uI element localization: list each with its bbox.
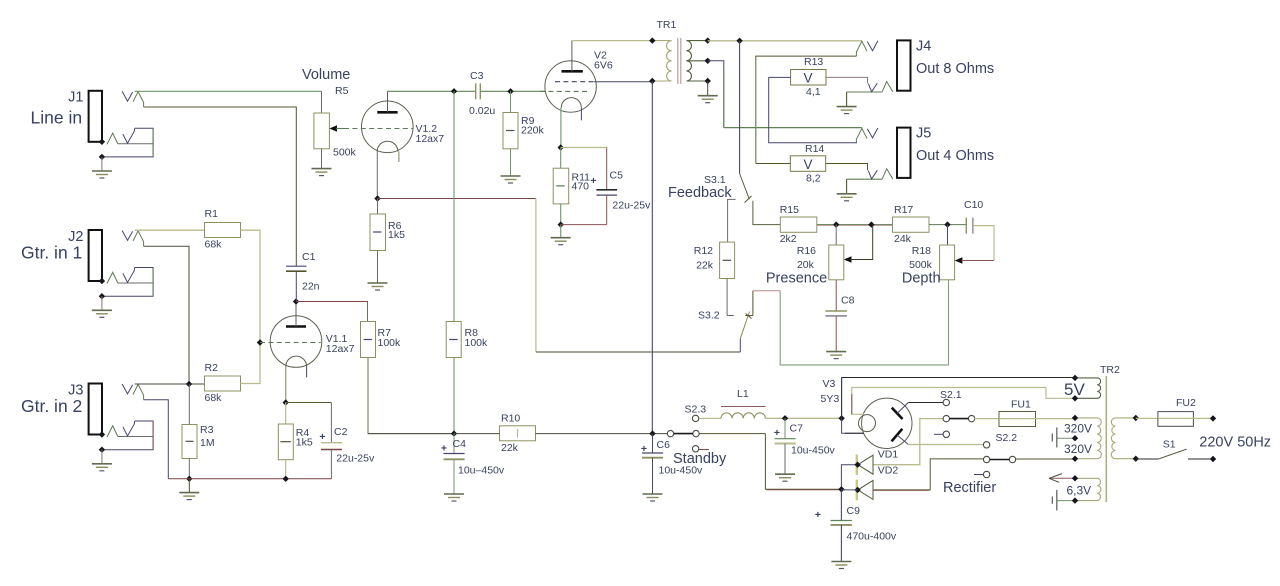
svg-text:12ax7: 12ax7 [416, 133, 445, 145]
svg-text:L1: L1 [737, 388, 749, 400]
R16 wiper arrow [844, 256, 852, 263]
wire C8 to ground [835, 316, 837, 352]
svg-text:6,3V: 6,3V [1067, 484, 1092, 498]
svg-text:0.02u: 0.02u [469, 105, 495, 117]
svg-text:22k: 22k [501, 442, 519, 454]
resistor R11 [553, 168, 569, 204]
wire VD2 junction through to S2.2 [841, 489, 857, 491]
node R18 top [944, 221, 950, 227]
svg-text:C9: C9 [847, 505, 861, 517]
wire R6 to ground [377, 251, 379, 284]
TR1 secondary winding [686, 41, 707, 81]
TR2 6.3V winding [1075, 478, 1101, 500]
voltmeter R14 [790, 156, 825, 172]
wire TR1 primary bottom B+ vertical [651, 81, 653, 434]
wire ground stem R3 [188, 479, 190, 493]
capacitor C2 [330, 403, 332, 443]
capacitor C8 [825, 310, 847, 312]
wire J3 sleeve to ground [102, 421, 153, 450]
TR2 right terminal nodes [1133, 415, 1139, 421]
svg-text:R17: R17 [894, 204, 913, 216]
svg-text:R2: R2 [205, 362, 219, 374]
wire R4 bottom lead [285, 460, 287, 479]
svg-text:100k: 100k [378, 337, 402, 349]
node feedback tap [736, 38, 742, 44]
resistor R2 [205, 376, 241, 391]
wire primary top to FU2 [1136, 417, 1158, 419]
wire R1 to grid bus [241, 230, 261, 342]
connector J5 body [897, 128, 911, 178]
rectifier tube V3 envelope [862, 398, 912, 448]
V2 anode [562, 70, 583, 73]
wire ground bus [168, 478, 331, 480]
wire R15 to R17 [817, 224, 893, 226]
node V1.2 cathode [374, 195, 380, 201]
node C6 top [649, 430, 655, 436]
svg-text:Depth: Depth [902, 271, 941, 287]
TR1 primary winding [652, 41, 671, 81]
V2 control grid [540, 90, 588, 92]
R5 wiper arrow [329, 125, 337, 132]
svg-text:FU2: FU2 [1176, 397, 1196, 409]
6.3V tap chassis [1057, 500, 1075, 502]
capacitor C9 [840, 490, 842, 521]
capacitor C5 wiring [561, 147, 607, 149]
svg-text:Volume: Volume [302, 67, 350, 83]
ground J3 [92, 464, 112, 471]
V3 bottom anode [892, 429, 903, 442]
V2 cathode [561, 98, 581, 108]
svg-text:J4: J4 [916, 39, 931, 55]
node J1 sleeve [99, 139, 105, 145]
svg-text:C2: C2 [334, 426, 348, 438]
ground J4 [837, 107, 857, 114]
svg-text:S2.3: S2.3 [685, 404, 707, 416]
capacitor C10 [965, 218, 967, 234]
J4 tip contact [867, 41, 878, 51]
resistor R9 [510, 91, 512, 112]
svg-text:R16: R16 [797, 245, 816, 257]
wire rail R8 to R10 [454, 433, 500, 435]
node R16 wiper tap [868, 221, 874, 227]
node R9 top [507, 88, 513, 94]
svg-text:Rectifier: Rectifier [943, 480, 996, 496]
potentiometer R18 [940, 245, 955, 280]
svg-text:Standby: Standby [673, 451, 727, 467]
J1 sleeve contact [107, 133, 118, 144]
wire R17 to C10 node [929, 224, 966, 226]
svg-text:S1: S1 [1163, 439, 1176, 451]
wire R5 bottom to ground [321, 149, 323, 169]
wire TR1 secondary bottom to ground [707, 81, 709, 96]
S3.1 contact stub to R12 [728, 199, 736, 242]
svg-text:V: V [803, 157, 812, 172]
wire J1 sleeve to ground [102, 128, 153, 157]
resistor R7 [361, 322, 376, 358]
ground R5 [312, 169, 332, 176]
wire R8 bottom to rail [453, 358, 455, 434]
svg-text:22u-25v: 22u-25v [612, 200, 651, 212]
svg-text:Line in: Line in [31, 108, 83, 128]
wire C10 to R18 wiper [973, 226, 994, 261]
V3 top anode [892, 408, 903, 419]
potentiometer R16 [829, 245, 844, 280]
TR2 primary winding [1111, 418, 1136, 459]
svg-text:C10: C10 [964, 199, 983, 211]
wire V3 cathode bottom loop [842, 378, 1075, 419]
resistor R17 [893, 217, 930, 232]
svg-text:J5: J5 [916, 126, 931, 142]
wire J2 sleeve to ground [102, 268, 153, 297]
wire J4 shunt to R14 [756, 56, 857, 163]
switch S2.3 standby pole [667, 430, 673, 436]
svg-text:500k: 500k [909, 259, 933, 271]
svg-text:R5: R5 [335, 85, 349, 97]
TR2 core [1105, 376, 1107, 502]
switch S3.1 common wire [739, 41, 741, 174]
V2 screen grid [555, 81, 594, 83]
svg-text:S3.2: S3.2 [698, 310, 720, 322]
svg-text:22n: 22n [302, 281, 320, 293]
svg-text:R3: R3 [200, 424, 214, 436]
resistor R6 [377, 199, 379, 215]
wire J1 ground stem [101, 157, 103, 171]
svg-text:5Y3: 5Y3 [821, 393, 840, 405]
wire J1 shunt to C1 [144, 107, 297, 266]
wire J3 tip to node A [135, 383, 205, 385]
wire R11 top lead [560, 148, 562, 169]
TR2 left terminal nodes [1072, 375, 1078, 381]
wire R13 right to J4 sleeve [826, 77, 868, 83]
svg-text:68k: 68k [205, 392, 223, 404]
V1.1 anode [286, 325, 306, 328]
wire J3 ground stem [101, 450, 103, 464]
ground R9 [501, 176, 521, 183]
wire R11 ground stem [560, 225, 562, 238]
node R4 ground bus [283, 476, 289, 482]
ground C6 [643, 494, 663, 501]
HV center tap [1057, 437, 1075, 439]
wire V1.2 anode to C3 [388, 90, 476, 92]
wire V2 anode to TR1 [572, 40, 652, 42]
wire J1 tip to volume [135, 90, 322, 92]
svg-text:22u-25v: 22u-25v [336, 453, 375, 465]
wire V1.2 cathode to S3.2 [378, 198, 536, 200]
ground R11 [551, 238, 571, 245]
J3 tip contact [122, 384, 133, 394]
wire R8 top vertical [453, 91, 455, 321]
6.3V heater arrow [1049, 477, 1075, 479]
svg-text:+: + [815, 509, 821, 521]
wire top anode to S2.1 [908, 402, 943, 404]
wire R18 bottom to depth loop [780, 280, 948, 365]
svg-text:VD2: VD2 [878, 465, 899, 477]
svg-text:2k2: 2k2 [780, 233, 797, 245]
svg-text:470u-400v: 470u-400v [847, 531, 897, 543]
svg-text:C7: C7 [790, 423, 804, 435]
wire R10 to C6 node [536, 433, 671, 435]
svg-text:R14: R14 [805, 143, 824, 155]
svg-text:68k: 68k [205, 239, 223, 251]
svg-text:Gtr. in 1: Gtr. in 1 [21, 243, 82, 263]
wire R14 right to J5 sleeve [826, 164, 868, 171]
connector J4 body [897, 40, 911, 90]
svg-text:FU1: FU1 [1011, 399, 1031, 411]
wire R11 bottom lead [560, 204, 562, 225]
node R11 bottom [558, 221, 564, 227]
V1.2 cathode [377, 141, 398, 151]
svg-text:+: + [441, 443, 447, 455]
svg-text:22k: 22k [696, 260, 714, 272]
wire R2 to grid bus [241, 343, 261, 384]
node A J3 tip / R2 / R3 [186, 381, 192, 387]
node C3 left / R8 [451, 88, 457, 94]
svg-text:100k: 100k [465, 337, 489, 349]
capacitor C5 [596, 189, 617, 191]
node C7 top [782, 415, 788, 421]
node R3 ground [186, 476, 192, 482]
resistor R15 [780, 217, 817, 232]
svg-text:Out 4 Ohms: Out 4 Ohms [916, 148, 994, 164]
wire cathode to R4/C2 [286, 402, 332, 404]
svg-text:12ax7: 12ax7 [326, 343, 355, 355]
S3.2 upper contact from presence loop [745, 315, 753, 317]
svg-text:R1: R1 [205, 208, 219, 220]
svg-text:Out 8 Ohms: Out 8 Ohms [916, 61, 994, 77]
diode VD2 [856, 480, 858, 501]
wire TR1 secondary top to J4 tip [708, 40, 862, 42]
wire R16 top lead [835, 225, 837, 245]
node J2 ground [99, 293, 105, 299]
V3 filament [859, 415, 876, 432]
svg-text:TR1: TR1 [657, 19, 677, 31]
svg-text:+: + [319, 431, 325, 443]
wire bottom anode to S2.2 [908, 444, 983, 446]
resistor R8 [446, 322, 461, 358]
svg-text:220k: 220k [521, 125, 545, 137]
ground J1 [92, 171, 112, 178]
node J3 sleeve [99, 431, 105, 437]
svg-text:J1: J1 [68, 90, 83, 106]
wire S2.2 to TR2 HV bottom [1016, 458, 1076, 460]
node V1.1 anode / C1 [293, 298, 299, 304]
svg-text:+: + [590, 175, 596, 187]
switch S3.1 blade [740, 174, 750, 200]
wire standby to rectifier output [765, 434, 841, 490]
wire FU2 to mains [1193, 417, 1213, 419]
wire R18 top lead [947, 225, 949, 245]
ground TR1 [698, 96, 718, 103]
wire R16 bottom to C8 [835, 280, 837, 311]
J2 sleeve contact [107, 272, 118, 283]
svg-text:320V: 320V [1064, 442, 1092, 456]
ground C9 [831, 562, 851, 569]
wire R3 top lead [188, 384, 190, 425]
J1 tip contact [122, 91, 133, 101]
TR1 core [677, 38, 679, 84]
svg-text:8,2: 8,2 [806, 173, 821, 185]
svg-text:20k: 20k [797, 259, 815, 271]
wire FU1 to TR2 [1036, 418, 1076, 420]
capacitor C1 [286, 265, 307, 267]
svg-text:+: + [774, 427, 780, 439]
node J2 sleeve [99, 278, 105, 284]
svg-text:R12: R12 [694, 245, 713, 257]
svg-text:VD1: VD1 [878, 449, 899, 461]
svg-text:R10: R10 [501, 413, 520, 425]
svg-text:R18: R18 [912, 245, 931, 257]
wire S2.1 to FU1 [975, 418, 1000, 420]
wire R3 bottom lead [188, 459, 190, 479]
svg-text:500k: 500k [333, 147, 357, 159]
node V2 cathode / R11 top [558, 144, 564, 150]
svg-text:TR2: TR2 [1100, 364, 1120, 376]
svg-text:4,1: 4,1 [806, 86, 821, 98]
svg-text:220V 50Hz: 220V 50Hz [1199, 435, 1271, 451]
node B+ junction [838, 415, 844, 421]
resistor R4 [278, 424, 293, 460]
svg-text:1k5: 1k5 [296, 436, 313, 448]
ground J5 [837, 194, 857, 201]
V1.1 cathode [286, 356, 307, 366]
ground C7 [775, 474, 795, 481]
svg-text:10u-450v: 10u-450v [791, 445, 836, 457]
switch S2.3 upper contact [692, 415, 698, 421]
svg-text:24k: 24k [894, 233, 912, 245]
svg-text:C4: C4 [453, 438, 467, 450]
node J3 ground [99, 447, 105, 453]
wire J4 sleeve ground stem [846, 92, 848, 107]
wire R9 to ground [510, 149, 512, 176]
triode V1.1 envelope [270, 316, 322, 368]
V1.2 grid [344, 128, 413, 130]
J4 sleeve contact [882, 82, 893, 93]
svg-text:R15: R15 [780, 204, 799, 216]
node V1.1 grid [257, 339, 263, 345]
svg-text:S2.1: S2.1 [940, 389, 962, 401]
ground bus area [179, 493, 199, 500]
J3 sleeve contact [107, 426, 118, 437]
svg-text:C8: C8 [841, 295, 855, 307]
voltmeter R13 [791, 70, 826, 86]
resistor R10 [500, 426, 536, 441]
ground C4 [444, 494, 464, 501]
capacitor C3 [475, 83, 477, 99]
resistor R12 [720, 242, 735, 278]
svg-text:R13: R13 [804, 56, 823, 68]
wire S3.1 to R15 [753, 201, 780, 225]
V1.2 anode [377, 111, 397, 114]
ground C8 [826, 352, 846, 359]
fuse FU2 [1158, 412, 1194, 427]
ground J2 [92, 310, 112, 317]
wire R12 bottom to S3.2 [726, 279, 728, 316]
resistor R3 [182, 425, 197, 459]
wire J2 shunt down to node A [144, 246, 189, 384]
wire J2 tip to R1 [135, 229, 205, 231]
connector J3 body [89, 384, 102, 435]
svg-text:Presence: Presence [766, 271, 827, 287]
wire J1 to R5 top [321, 91, 323, 113]
wire C3 to V2 grid [480, 90, 545, 92]
wire VD1 cathode to S2.1 feed [873, 419, 943, 465]
svg-text:1M: 1M [200, 437, 215, 449]
svg-text:320V: 320V [1064, 422, 1092, 436]
J5 tip contact [867, 128, 878, 138]
triode V1.2 envelope [362, 101, 414, 153]
TR2 5V winding [1075, 378, 1101, 398]
svg-text:470: 470 [572, 181, 590, 193]
R18 wiper arrow [955, 257, 963, 264]
wire R7 bottom to rail [368, 358, 454, 434]
svg-text:10u–450v: 10u–450v [458, 465, 505, 477]
wire L1 to V3 [765, 417, 841, 419]
potentiometer R5 [314, 113, 330, 149]
svg-text:Feedback: Feedback [668, 185, 732, 201]
fuse FU1 [999, 412, 1036, 427]
wire J5 sleeve ground stem [846, 179, 848, 194]
ground R6 [368, 283, 388, 290]
wire V1.1 anode to R7 [296, 302, 368, 322]
svg-text:Gtr. in 2: Gtr. in 2 [21, 396, 82, 416]
resistor R1 [205, 223, 241, 238]
wire TR1 tap to J5 [708, 61, 724, 128]
V1.1 grid [260, 342, 321, 344]
node J1 ground [99, 154, 105, 160]
svg-text:1k5: 1k5 [388, 229, 405, 241]
capacitor C4 [453, 434, 455, 454]
TR1 terminal nodes [649, 37, 655, 43]
svg-text:C6: C6 [657, 439, 671, 451]
S2.3 lower stub contact [692, 446, 698, 452]
node V1.1 cathode [283, 399, 289, 405]
capacitor C6 [652, 434, 654, 453]
wire J2 ground stem [101, 296, 103, 310]
svg-text:V3: V3 [823, 378, 836, 390]
TR2 HV winding [1075, 418, 1101, 459]
svg-text:+: + [641, 443, 647, 455]
svg-text:C3: C3 [470, 70, 484, 82]
svg-text:S2.2: S2.2 [996, 432, 1018, 444]
wire V3 filament top to 5V winding [852, 388, 1075, 415]
J5 sleeve contact [882, 169, 893, 180]
svg-text:C5: C5 [610, 170, 624, 182]
wire R13 left lead [769, 77, 857, 142]
diode VD1 [856, 455, 858, 476]
node R16 top [833, 221, 839, 227]
capacitor C7 [784, 418, 786, 438]
wire VD1 to VD2 junction [841, 465, 857, 490]
node rail R8 [451, 430, 457, 436]
connector J1 body [89, 91, 102, 142]
wire J3 shunt to ground bus [144, 400, 169, 479]
S3.2 blade [740, 312, 749, 339]
J2 tip contact [122, 231, 133, 241]
connector J2 body [89, 230, 102, 281]
tube V2 envelope [545, 61, 596, 112]
svg-text:6V6: 6V6 [594, 60, 613, 72]
svg-text:C1: C1 [302, 251, 316, 263]
node rectifier output [838, 486, 844, 492]
svg-text:V: V [803, 71, 812, 86]
wire R14 left lead [756, 163, 791, 165]
